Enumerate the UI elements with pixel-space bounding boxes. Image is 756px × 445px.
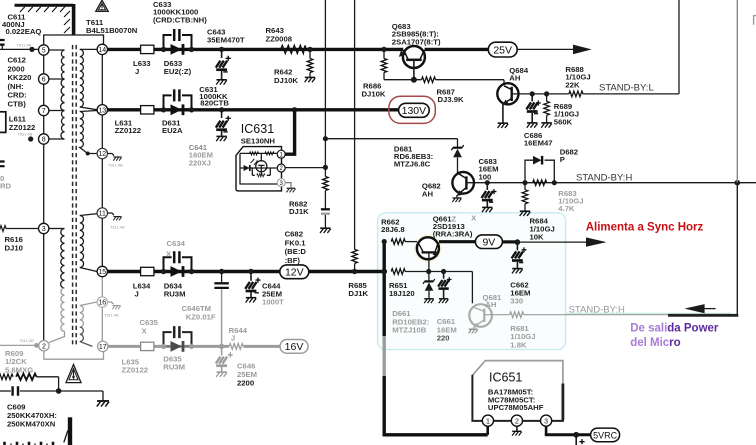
node [552,180,557,185]
svg-text:16EM47: 16EM47 [524,139,553,148]
svg-text:1000T: 1000T [262,298,284,307]
capacitor (cut at bottom) [575,435,577,445]
wire Q681 base / STAND-BY:H lower [484,314,668,316]
node [352,269,357,274]
svg-text:CTB): CTB) [8,100,27,109]
svg-text:IC631: IC631 [241,122,274,136]
node T611:4B [29,47,34,52]
svg-text:10K: 10K [530,233,545,242]
svg-text:3: 3 [544,418,548,425]
svg-text:STAND-BY:H: STAND-BY:H [576,172,632,183]
pin 15 [97,266,107,276]
capacitor C631 [164,95,192,109]
12V flag [280,265,309,279]
pin 14 [97,44,107,54]
16V rail (inactive) [108,345,280,348]
highlight box (standby circuit) [378,213,566,350]
svg-text:560K: 560K [554,117,573,126]
IC631 pin 2 [277,164,285,172]
svg-text:2SA1707(8:T): 2SA1707(8:T) [392,37,441,46]
IC631 box [236,147,282,191]
svg-text:J: J [135,289,139,298]
node pin2 feed [34,343,39,348]
node Q683 base [411,77,417,83]
winding 13-12 [80,111,97,112]
node [219,344,224,349]
transistor Q681 (inactive) [469,304,492,327]
svg-text:P: P [560,155,565,164]
svg-text:UPC78M05AHF: UPC78M05AHF [488,403,544,412]
svg-text:L611: L611 [9,114,27,123]
svg-text:330: 330 [510,296,523,305]
130V bus [108,108,399,111]
svg-text:De salida Power: De salida Power [630,323,719,335]
svg-text:T611:4B: T611:4B [18,132,33,137]
wire shield bridge pin5-pin14 [44,35,104,45]
node [56,388,62,394]
ground IC631 pin3 [285,183,291,188]
pin 11 [97,208,107,218]
diode D634 [164,271,192,273]
svg-text:2200: 2200 [237,378,254,387]
resistor chain bottom left [0,374,13,380]
node [161,107,166,112]
svg-text:EU2A: EU2A [162,126,183,135]
svg-text:RD: RD [0,182,12,191]
node [219,107,224,112]
svg-text:DJ10K: DJ10K [362,90,386,99]
node [426,269,431,274]
svg-text:DJ10: DJ10 [5,244,23,253]
capacitor C662 [516,244,518,251]
svg-text:5: 5 [42,48,46,55]
svg-text:14: 14 [98,47,106,54]
arrow left (from micro) [684,304,704,313]
svg-text:MTZJ10B: MTZJ10B [392,326,427,335]
node D681 tap [323,136,328,141]
capacitor C643 [221,51,223,58]
wire to pin2 [0,344,39,346]
svg-text:4.7K: 4.7K [558,204,575,213]
IC631 inner circuit [240,153,277,184]
diode D633 [164,48,192,50]
svg-text:C612: C612 [8,56,26,65]
svg-text:(BE:D: (BE:D [285,247,307,256]
svg-text:15: 15 [98,269,106,276]
svg-text:100: 100 [479,172,492,181]
resistor R682 [323,177,329,191]
wire and arrow 9V [517,241,587,243]
25V flag [488,42,517,57]
inductor L634 [141,267,154,275]
IC651 pin 1 [482,415,493,426]
node [381,269,387,275]
svg-text:9V: 9V [482,237,495,249]
svg-text:(CRD:CTB:NH): (CRD:CTB:NH) [153,15,207,24]
chassis shield bar top-left [15,4,74,35]
pin 12 [97,148,107,158]
9V flag [439,240,475,243]
diode D682 [525,160,554,183]
svg-text:FK0.1: FK0.1 [285,238,307,247]
svg-text:16: 16 [98,300,106,307]
pin 7 [39,105,49,115]
winding 5-6 [49,50,65,79]
ground pin11 [108,213,115,215]
node [544,91,549,96]
thick stub (cut component) [68,417,72,445]
wire pin3 to 5VRC [545,426,548,435]
pin 5 [39,45,49,55]
mint highlight line under STAND-BY:H [566,313,731,315]
svg-text:ZZ0008: ZZ0008 [266,34,293,43]
transistor Q661 [417,237,439,259]
winding 14-13 [80,48,97,50]
capacitor C661 [443,272,445,279]
svg-text:28J6.8: 28J6.8 [381,225,405,234]
resistor R662 [391,239,405,245]
resistor R683 [533,180,547,186]
svg-text:C682: C682 [285,230,303,239]
svg-text:J: J [135,67,139,76]
IC651 box [472,361,563,384]
resistor R651 [391,269,405,275]
winding 3-2 upper [49,228,65,230]
svg-text:220: 220 [437,334,450,343]
inductor L631 [141,106,154,114]
wire thick main rail [383,239,386,336]
svg-text:22K: 22K [565,80,580,89]
transformer T611 core [73,45,77,346]
svg-text:B4L51B0070N: B4L51B0070N [86,26,138,35]
16V flag (inactive) [280,340,308,354]
wire [324,139,326,177]
wire and arrow 25V [517,48,575,50]
inductor L633 [141,45,154,53]
resistor R643 [281,45,306,53]
node [189,107,194,112]
svg-text:DJ1K: DJ1K [348,289,368,298]
pin 16 (inactive) [97,297,107,307]
resistor R616 [0,226,6,232]
wire stub far right [754,15,756,25]
zener D661 [428,272,430,282]
wire Q684 base line [512,93,569,95]
zener D681 [325,139,457,148]
svg-text:AH: AH [509,74,521,83]
winding 7-8 [49,138,65,140]
svg-text:J: J [231,334,235,343]
svg-text:6: 6 [42,77,46,84]
yellow halo behind Q661 [414,234,442,262]
svg-text:Alimenta a Sync Horz: Alimenta a Sync Horz [586,222,704,234]
capacitor C686 [531,94,533,102]
transistor Q683 [403,46,425,68]
warning triangle (top) [96,0,108,11]
capacitor C646 (inactive) [221,348,223,355]
node [161,269,166,274]
ground IC651 pin2 [516,426,518,430]
diode D635 (inactive) [164,345,192,347]
pin 2 (inactive) [39,341,49,351]
svg-text:DJ10K: DJ10K [274,76,298,85]
capacitor C611 (partial at edge) [0,40,5,45]
ground pin16 (inactive) [108,302,114,304]
svg-text:2: 2 [42,343,46,350]
5VRC flag [591,428,620,442]
svg-text:AH: AH [485,300,497,309]
svg-text:X: X [471,213,477,222]
svg-text:EU2(:Z): EU2(:Z) [164,67,192,76]
node right rail [735,180,741,186]
12V bus [108,270,385,273]
bottom edge marks [5,442,54,445]
pin 13 [97,105,107,115]
svg-text:12: 12 [98,151,106,158]
svg-text:35EM470T: 35EM470T [207,36,245,45]
svg-text:DJ3.9K: DJ3.9K [438,95,465,104]
svg-text:T611:4B: T611:4B [110,225,125,230]
svg-text:2000: 2000 [8,64,25,73]
svg-text:1.8K: 1.8K [510,340,527,349]
svg-text:7: 7 [42,108,46,115]
winding 16-17 (inactive) [80,302,97,306]
wire to pin 5 [0,48,38,50]
svg-text:2: 2 [515,418,519,425]
wire base line [384,80,504,86]
25V bus [108,48,489,51]
svg-text:13: 13 [98,107,106,114]
resistor R681 (inactive) [510,312,524,318]
node [189,269,194,274]
vertical feed line B [354,0,356,249]
svg-text:CRD:: CRD: [8,91,27,100]
svg-text:17: 17 [99,344,107,351]
svg-text:130V: 130V [402,105,427,117]
svg-text:C634: C634 [167,239,186,248]
svg-text:3: 3 [42,226,46,233]
transistor Q682 [452,172,474,194]
svg-text:SE130NH: SE130NH [241,137,276,146]
IC631 pin 1 [277,150,285,158]
svg-text:8: 8 [42,137,46,144]
svg-text:STAND-BY:H: STAND-BY:H [569,304,625,315]
svg-text:RU3M: RU3M [163,363,185,372]
capacitor C644 [250,273,252,281]
node [189,47,194,52]
svg-text:ZZ0122: ZZ0122 [115,126,142,135]
node [522,180,527,185]
node pin2 tap [323,165,328,170]
svg-text:KZ0.01F: KZ0.01F [186,313,216,322]
IC651 pin 2 [511,415,522,426]
winding 11-15 [80,214,98,216]
node [530,91,535,96]
node [485,180,490,185]
node pin8 feed [28,136,33,141]
wire STAND-BY:H upper [466,182,737,184]
svg-text:5VRC: 5VRC [593,431,618,441]
node [382,239,387,244]
svg-text:25V: 25V [493,44,512,56]
resistor R644 (inactive) [229,344,243,350]
resistor R684 [524,184,526,190]
node [189,344,194,349]
winding 3-2 lower (inactive) [61,288,65,331]
capacitor C633 [164,35,192,49]
warning triangle (bottom) [66,365,81,383]
svg-text:X: X [142,326,148,335]
svg-text:1: 1 [486,418,490,425]
diode D631 [164,109,192,111]
svg-text:MTZJ6.8C: MTZJ6.8C [394,160,431,169]
capacitor C682 [321,208,330,210]
capacitor C634 [164,257,192,271]
svg-text:ZZ0122: ZZ0122 [122,366,149,375]
130V flag with red ring [389,96,435,123]
svg-text:250KM470XN: 250KM470XN [7,419,56,428]
svg-text:T611:4B: T611:4B [19,338,34,343]
vertical feed line A [324,0,326,139]
resistor R642 [309,51,311,59]
svg-text:220XJ: 220XJ [189,158,211,167]
wire thick to IC631 pin1 [285,110,295,154]
capacitor at left edge [0,162,5,167]
node [441,269,446,274]
pin 17 (inactive) [98,341,108,351]
ground pin12 [108,154,115,156]
inductor L611 (partial box at edge) [0,112,6,133]
node [381,47,386,52]
IC651 pin 3 [541,415,552,426]
svg-text:0.022EAQ: 0.022EAQ [6,27,42,36]
svg-text:(NH:: (NH: [8,82,24,91]
svg-text:820CTB: 820CTB [200,98,229,107]
resistor R686 [383,51,385,59]
wire STAND-BY:L [583,0,679,94]
svg-text:STAND-BY:L: STAND-BY:L [599,83,654,94]
wire thick standby segment [668,314,738,317]
capacitor C609 [0,390,11,392]
node [573,432,579,438]
wire pin1 down [486,426,489,435]
svg-text:T611:4B: T611:4B [108,163,123,168]
transistor Q684 [497,83,518,104]
wire left winding chain [43,55,45,340]
svg-text:AH: AH [422,189,434,198]
capacitor C641 [221,112,223,119]
IC631 pin 3 [277,179,285,187]
node [219,47,224,52]
resistor [16,374,36,380]
wire right winding chain [101,55,103,267]
wire to ground [59,391,103,400]
svg-text:(RRA:3RA): (RRA:3RA) [433,229,473,238]
svg-text:RU3M: RU3M [164,289,186,298]
node [515,239,521,245]
svg-text:T611:4B: T611:4B [104,313,119,318]
svg-text:16V: 16V [285,341,304,353]
capacitor C646TM [221,273,223,283]
capacitor C682ref resistor R685 [352,249,358,263]
pin 8 [39,134,49,144]
svg-text:12V: 12V [285,267,304,279]
resistor R688 [569,91,583,97]
svg-text:IC651: IC651 [489,371,522,385]
node [161,344,166,349]
svg-text:18J120: 18J120 [389,289,415,298]
wire pin2 to R682 [285,167,325,169]
svg-text:del Micro: del Micro [630,337,680,349]
wire loop pin2-pin17 (inactive) [44,351,104,359]
capacitor C683 [486,183,488,190]
svg-text:X: X [166,250,172,259]
svg-text:KK220: KK220 [8,73,32,82]
node [161,47,166,52]
resistor R689 [546,94,548,101]
node [248,269,253,274]
pin 3 [39,223,49,233]
node [292,107,297,112]
pin 6 [39,74,49,84]
node winding junction [86,152,90,156]
node [219,269,224,274]
winding 6-7 [49,110,65,112]
capacitor C635 [164,332,192,346]
svg-text:11: 11 [99,211,106,218]
node [307,47,312,52]
svg-text:DJ1K: DJ1K [289,207,309,216]
wire right rail [736,0,738,183]
inductor L635 (inactive) [141,342,154,350]
resistor R687 [422,77,436,83]
svg-text::BF): :BF) [285,256,301,265]
svg-text:T611:4B: T611:4B [17,43,32,48]
